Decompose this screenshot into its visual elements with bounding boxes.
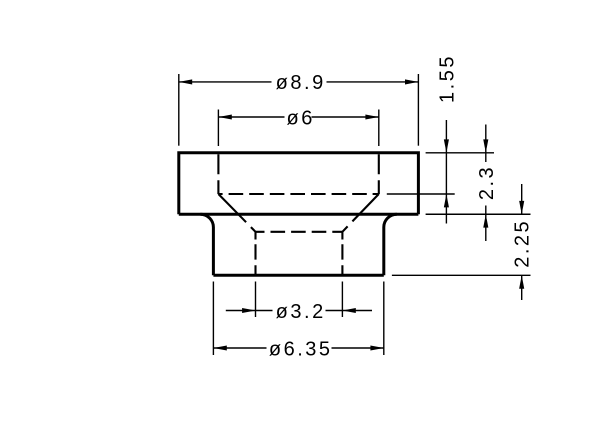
dimension 2.25: flange bottom extension line [426,213,531,215]
dimension 3.2: right extension line [341,282,343,318]
dimension 8.9: dimension line [179,81,272,83]
dimension 8.9: left extension line [178,74,180,146]
dimension 2.3: bottom tail [485,214,487,241]
dimension 6.35: dimension line [213,347,266,349]
dimension 6.35: right extension line [383,282,385,356]
hidden line: hole left wall [254,232,256,275]
dimension 2.25: part bottom extension line [392,274,531,276]
dimension 2.25: bottom tail [521,275,523,300]
svg-text:ø8.9: ø8.9 [276,72,326,94]
hidden line: right countersink taper [342,194,378,232]
dimension 3.2: left arrow [242,308,255,313]
dimension 1.55: upper tail [445,120,447,153]
hidden line: taper bottom [256,231,343,233]
dimension 1.55: top extension line (top face plane) [426,152,494,154]
dimension 6: dimension line [218,116,284,118]
part outline: left fillet and body left edge [200,214,213,275]
dimension 3.2: left extension line [255,282,257,318]
dimension 2.25: top arrow [519,201,524,214]
dimension 6.35: left arrow [213,345,226,350]
dimension 2.3: dimension line segments around label [485,153,487,162]
dimension 1.55: bottom extension line (shoulder plane) [387,193,455,195]
dimension 6: left arrow [218,114,231,119]
dimension 2.3: top arrow [483,139,488,152]
dimension 1.55: lower tail [445,194,447,224]
hidden line: counterbore right wall [378,154,380,194]
part outline: body bottom edge [213,274,383,277]
hidden line: counterbore left wall [217,154,219,194]
hidden line: left countersink taper [218,194,255,232]
dimension 1.55: bottom arrow [444,194,449,207]
dimension 8.9: right arrow [405,79,418,84]
dimension 6: left extension line [217,110,219,147]
dimension 2.25: top tail [521,184,523,214]
dimension 1.55: dimension line between planes [445,153,447,194]
dimension 6.35: right arrow [370,345,383,350]
dimension 8.9: left arrow [179,79,192,84]
dimension 3.2: right tail and inner segment [342,310,372,312]
dimension 2.3: top arrow tail [485,125,487,153]
hidden line: hole right wall [341,232,343,275]
part outline: flange left edge, top edge, right edge [179,153,419,214]
dimension 3.2: right arrow [342,308,355,313]
dimension 1.55: top arrow [444,139,449,152]
svg-text:ø3.2: ø3.2 [276,301,326,323]
dimension 6: right arrow [365,114,378,119]
dimension 2.25: bottom arrow [519,275,524,288]
svg-text:2.3: 2.3 [476,165,498,200]
dimension 6.35: left extension line [212,282,214,356]
dimension 8.9: right extension line [417,74,419,146]
dimension 2.3: bottom arrow [483,214,488,227]
svg-text:2.25: 2.25 [512,219,534,268]
part outline: flange bottom edge [179,213,419,216]
part outline: right fillet and body right edge [384,214,397,275]
svg-text:ø6: ø6 [287,107,315,129]
dimension 3.2: left tail and inner segment [226,310,256,312]
svg-text:ø6.35: ø6.35 [269,338,333,360]
svg-text:1.55: 1.55 [436,54,458,103]
dimension 6: right extension line [378,110,380,147]
hidden line: counterbore shoulder [218,193,378,195]
